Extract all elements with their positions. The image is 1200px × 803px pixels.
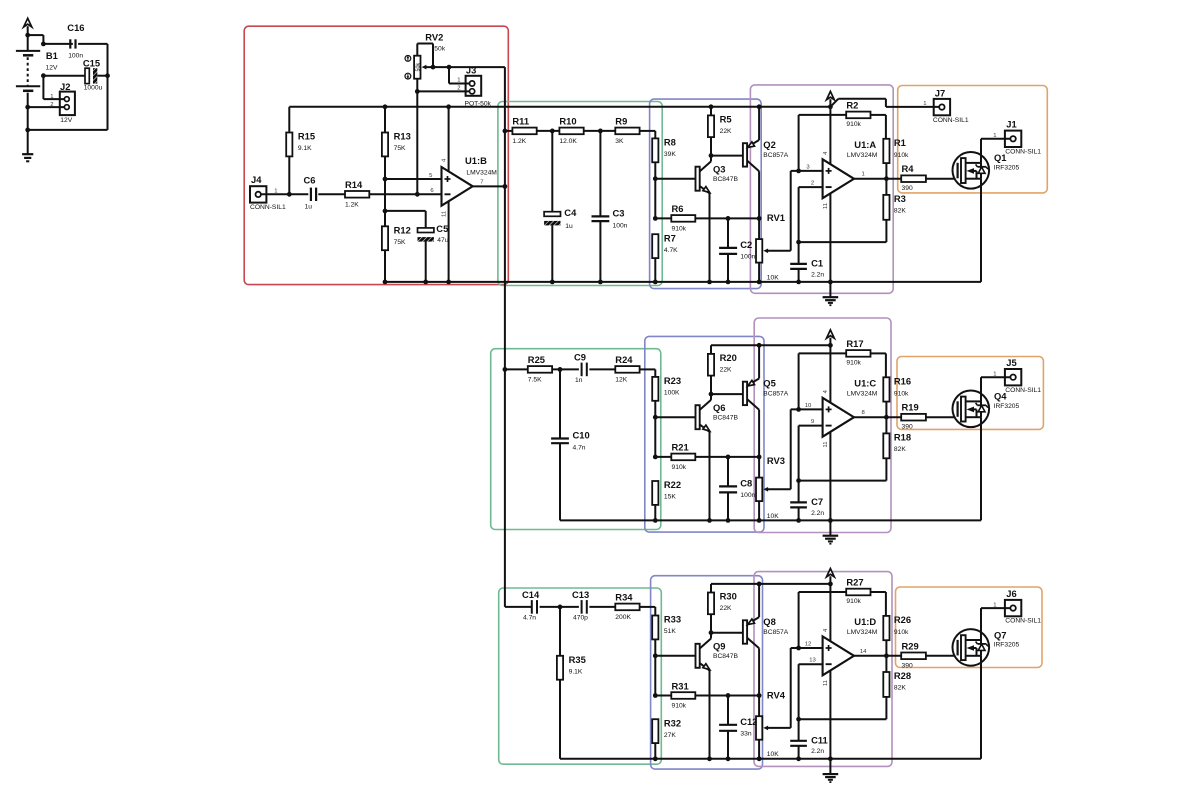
wire: [43, 75, 85, 77]
resistor R23: [652, 375, 681, 401]
node R7/rail: [653, 518, 658, 523]
svg-text:1u: 1u: [565, 223, 573, 230]
wire source to rail: [980, 179, 982, 282]
svg-text:BC847B: BC847B: [713, 653, 738, 660]
ground: [823, 282, 839, 305]
wire + input: [791, 170, 823, 172]
svg-text:7: 7: [480, 180, 483, 186]
wire NPN base: [655, 178, 696, 180]
transistor Q6: [696, 394, 739, 432]
resistor R15: [286, 107, 315, 195]
svg-text:R35: R35: [569, 654, 586, 665]
capacitor C10: [551, 430, 590, 452]
wire: [42, 76, 44, 99]
node main/R11: [503, 129, 508, 134]
svg-text:Q5: Q5: [763, 377, 776, 388]
svg-text:1u: 1u: [305, 204, 313, 211]
svg-text:390: 390: [902, 185, 913, 192]
svg-text:R10: R10: [559, 116, 576, 127]
power arrow battery: [24, 18, 32, 35]
red annotation box (input stage): [244, 26, 508, 284]
node Cf/rail: [796, 756, 801, 761]
orange annotation box row3: [896, 587, 1043, 668]
svg-text:LMV324M: LMV324M: [847, 629, 878, 636]
wire: [589, 368, 615, 370]
wire NPN emitter to rail: [709, 193, 711, 282]
transistor Q8: [743, 584, 789, 696]
svg-text:11: 11: [823, 441, 829, 447]
green annotation box row2: [491, 349, 661, 530]
svg-text:C7: C7: [811, 496, 823, 507]
wire: [654, 639, 656, 695]
label J5: [993, 357, 1041, 394]
wire R24 to R23: [640, 369, 656, 377]
wire: [97, 75, 107, 77]
wire R34 to R33: [640, 607, 656, 616]
wire ground rail row2: [655, 519, 981, 521]
svg-text:2: 2: [50, 102, 53, 108]
wire: [885, 402, 887, 418]
wire pin4 supply: [829, 107, 831, 164]
resistor R12: [382, 225, 411, 282]
node emitter/rail: [707, 756, 712, 761]
purple annotation box row3: [754, 572, 892, 767]
wire: [505, 606, 531, 608]
node + input: [796, 407, 801, 412]
wire - input: [799, 426, 823, 481]
resistor R19: [901, 402, 926, 431]
svg-text:11: 11: [441, 211, 447, 217]
svg-text:CONN-SIL1: CONN-SIL1: [250, 204, 286, 211]
node: [41, 73, 46, 78]
node collector/base net: [709, 153, 714, 158]
svg-text:1: 1: [923, 101, 926, 107]
wire gate: [926, 416, 957, 418]
op-amp U1:B: [429, 155, 497, 217]
resistor R32: [652, 717, 681, 743]
svg-text:51K: 51K: [664, 628, 676, 635]
svg-text:75K: 75K: [394, 239, 406, 246]
wire C5 branch: [385, 210, 426, 212]
wire main V+ rail: [289, 106, 830, 108]
wire: [107, 76, 109, 130]
wire C10 up: [559, 369, 561, 438]
wire drain: [981, 608, 1010, 640]
node R7/rail: [653, 756, 658, 761]
wire C10 down to rail: [560, 443, 655, 520]
resistor R29: [901, 640, 926, 669]
potentiometer RV2: [414, 32, 446, 79]
resistor R7: [652, 232, 678, 258]
wire NPN base: [655, 416, 696, 418]
wire U1:B output: [473, 185, 505, 187]
node RV2/pin6: [415, 192, 420, 197]
svg-text:82K: 82K: [894, 446, 906, 453]
power +12V arrow: [827, 569, 835, 584]
svg-text:12.0K: 12.0K: [559, 138, 577, 145]
resistor R21: [655, 442, 695, 471]
svg-text:910k: 910k: [846, 121, 861, 128]
blue annotation box row3: [651, 576, 763, 769]
svg-text:Q7: Q7: [994, 629, 1007, 640]
op-amp U1:A: [806, 139, 877, 209]
svg-text:R16: R16: [894, 375, 911, 386]
svg-text:100n: 100n: [740, 254, 755, 261]
svg-text:Q6: Q6: [713, 402, 726, 413]
blue annotation box row2: [645, 336, 764, 532]
wire PNP base: [711, 155, 744, 157]
svg-text:U1:C: U1:C: [854, 377, 876, 388]
node Cb/rail: [726, 756, 731, 761]
svg-text:2.2n: 2.2n: [811, 510, 824, 517]
wire J2 pin2: [28, 106, 65, 108]
node RV2 bottom: [415, 89, 420, 94]
node J4/R15/C6: [287, 192, 292, 197]
node R7/rail: [653, 280, 658, 285]
svg-text:C5: C5: [436, 223, 448, 234]
label J7: [923, 87, 969, 123]
svg-text:9: 9: [811, 419, 814, 425]
resistor R31: [655, 680, 695, 709]
svg-text:BC847B: BC847B: [713, 176, 738, 183]
node Cb/rail: [726, 280, 731, 285]
wire: [885, 640, 887, 656]
svg-text:2: 2: [457, 85, 460, 91]
wire - input: [799, 187, 823, 242]
wire: [78, 43, 107, 45]
wire feedback: [799, 718, 887, 720]
blue annotation box row1: [650, 99, 762, 289]
svg-text:910k: 910k: [672, 703, 687, 710]
wire: [589, 606, 615, 608]
svg-text:C8: C8: [740, 478, 752, 489]
node R35 top: [558, 605, 563, 610]
connector J2: [50, 81, 75, 124]
node R13/R12/pin5: [383, 177, 388, 182]
wire drain: [981, 139, 1010, 163]
svg-text:CONN-SIL1: CONN-SIL1: [1005, 618, 1041, 625]
node RV2 wiper/top: [431, 65, 436, 70]
svg-text:4.7K: 4.7K: [664, 247, 678, 254]
resistor R33: [652, 614, 681, 640]
resistor R16: [883, 375, 911, 401]
node C5/rail: [423, 280, 428, 285]
svg-text:R1: R1: [894, 137, 906, 148]
svg-text:R21: R21: [672, 442, 689, 453]
svg-text:C12: C12: [740, 716, 757, 727]
svg-text:R7: R7: [664, 232, 676, 243]
node RV top: [757, 455, 762, 460]
svg-text:R31: R31: [672, 680, 689, 691]
resistor R34: [615, 592, 639, 621]
wire: [537, 130, 560, 132]
node R5 top: [709, 104, 714, 109]
wire pin11: [829, 193, 831, 282]
svg-text:Q3: Q3: [713, 163, 726, 174]
wire source to rail: [980, 656, 982, 759]
svg-text:R3: R3: [894, 193, 906, 204]
resistor R35: [557, 654, 586, 680]
wire: [318, 193, 345, 195]
svg-text:IRF3205: IRF3205: [994, 641, 1020, 648]
node feedback: [796, 478, 801, 483]
wire ground rail row1: [385, 281, 981, 283]
node Cf/rail: [796, 280, 801, 285]
resistor R3: [883, 193, 906, 220]
resistor R10: [559, 116, 583, 145]
svg-text:R33: R33: [664, 614, 681, 625]
node RV/rail: [757, 518, 762, 523]
svg-text:22K: 22K: [720, 128, 732, 135]
svg-text:U1:D: U1:D: [854, 616, 876, 627]
svg-text:9.1K: 9.1K: [298, 145, 312, 152]
green annotation box row1: [498, 102, 662, 286]
svg-text:C4: C4: [564, 207, 577, 218]
capacitor C16: [67, 22, 84, 60]
capacitor C1: [790, 242, 824, 282]
svg-text:27K: 27K: [664, 732, 676, 739]
svg-text:15K: 15K: [664, 494, 676, 501]
svg-text:LMV324M: LMV324M: [847, 152, 878, 159]
svg-text:U1:A: U1:A: [854, 139, 876, 150]
wire J2 pin1: [43, 98, 64, 100]
wire output: [854, 178, 901, 180]
potentiometer RV4: [756, 690, 791, 759]
svg-text:4.7n: 4.7n: [523, 614, 536, 621]
svg-text:910k: 910k: [894, 629, 909, 636]
svg-text:22K: 22K: [720, 605, 732, 612]
node C16 left: [41, 42, 46, 47]
wire J3 pin1: [449, 67, 470, 83]
capacitor C9: [574, 351, 587, 384]
resistor R1: [883, 137, 909, 163]
transistor Q2: [743, 107, 789, 219]
svg-text:R12: R12: [394, 225, 411, 236]
node collector/base net: [709, 630, 714, 635]
svg-text:910k: 910k: [672, 464, 687, 471]
node feedback: [796, 240, 801, 245]
node U1:B out / main vertical: [503, 184, 508, 189]
resistor R26: [883, 614, 911, 640]
svg-text:J6: J6: [1006, 588, 1016, 599]
wire: [871, 592, 886, 616]
svg-text:12K: 12K: [615, 377, 627, 384]
resistor R18: [883, 431, 911, 458]
wire: [425, 241, 427, 282]
node battery bottom: [25, 127, 30, 132]
capacitor C4: [544, 207, 577, 230]
svg-text:22K: 22K: [720, 366, 732, 373]
wire: [695, 217, 759, 219]
ground battery: [22, 130, 33, 161]
node C4/rail: [550, 280, 555, 285]
wire R13-R12: [384, 179, 386, 226]
svg-text:C1: C1: [811, 258, 823, 269]
wire supply detour to J7: [830, 99, 939, 107]
wire pin11: [829, 432, 831, 521]
wire C4 down: [551, 225, 553, 282]
capacitor C3: [592, 208, 628, 230]
node base junction: [653, 415, 658, 420]
svg-text:C13: C13: [572, 589, 589, 600]
svg-text:C11: C11: [811, 734, 828, 745]
svg-text:910k: 910k: [846, 359, 861, 366]
wire top supply: [711, 583, 830, 585]
svg-text:12V: 12V: [46, 65, 58, 72]
wire: [43, 43, 73, 45]
svg-text:39K: 39K: [664, 151, 676, 158]
svg-text:BC857A: BC857A: [763, 629, 788, 636]
node J3 pin1 branch: [447, 65, 452, 70]
potentiometer RV1: [756, 212, 791, 282]
wire J3 pin2: [417, 90, 469, 92]
svg-text:R11: R11: [512, 116, 529, 127]
wire source to rail: [980, 417, 982, 520]
svg-text:R32: R32: [664, 717, 681, 728]
RV2 terminal mark bottom: [405, 73, 411, 79]
node pin11/rail: [828, 756, 833, 761]
svg-text:1n: 1n: [575, 377, 583, 384]
svg-text:12V: 12V: [60, 117, 72, 124]
ground: [823, 520, 839, 543]
wire RV2-pin6 feedback: [416, 91, 418, 194]
wire pin4 supply: [829, 345, 831, 402]
svg-text:R5: R5: [720, 113, 732, 124]
svg-text:RV3: RV3: [767, 455, 785, 466]
capacitor C11: [790, 719, 828, 759]
svg-text:R28: R28: [894, 670, 911, 681]
node battery mid: [25, 105, 30, 110]
svg-text:B1: B1: [46, 50, 58, 61]
node base junction: [653, 653, 658, 658]
capacitor C8: [719, 457, 755, 521]
svg-text:R25: R25: [528, 354, 545, 365]
svg-text:C9: C9: [574, 351, 586, 362]
wire: [885, 163, 887, 179]
svg-text:75K: 75K: [394, 145, 406, 152]
node C4 top: [550, 129, 555, 134]
svg-text:LMV324M: LMV324M: [847, 391, 878, 398]
svg-text:C6: C6: [304, 174, 316, 185]
svg-text:IRF3205: IRF3205: [994, 403, 1020, 410]
ground: [823, 759, 839, 782]
wire NPN emitter to rail: [709, 432, 711, 521]
wire NPN emitter to rail: [709, 670, 711, 758]
svg-text:1: 1: [50, 94, 53, 100]
svg-text:R15: R15: [298, 131, 315, 142]
node pin11/rail: [828, 518, 833, 523]
purple annotation box row2: [754, 318, 891, 533]
connector J6: [1005, 600, 1021, 616]
node RV top: [757, 216, 762, 221]
svg-text:2.2n: 2.2n: [811, 748, 824, 755]
svg-text:C10: C10: [573, 430, 590, 441]
svg-text:33n: 33n: [740, 730, 751, 737]
svg-text:100n: 100n: [740, 492, 755, 499]
wire bottom loop: [28, 129, 108, 131]
node C bootstrap top: [726, 693, 731, 698]
wire: [885, 179, 887, 242]
node collector/base net: [709, 392, 714, 397]
svg-text:R26: R26: [894, 614, 911, 625]
svg-text:R23: R23: [664, 375, 681, 386]
wire: [654, 505, 656, 521]
svg-text:R2: R2: [846, 99, 858, 110]
wire drain: [981, 377, 1010, 401]
node output: [884, 653, 889, 658]
svg-text:C2: C2: [740, 239, 752, 250]
node feedback: [796, 717, 801, 722]
wire: [871, 115, 886, 139]
svg-text:J7: J7: [935, 87, 945, 98]
node power junction: [828, 104, 833, 109]
svg-text:470p: 470p: [573, 614, 588, 621]
wire - input: [799, 664, 823, 719]
wire wiper riser: [790, 171, 792, 251]
resistor R30: [708, 584, 737, 633]
op-amp U1:D: [805, 616, 878, 686]
connector J4: [250, 186, 266, 202]
node Cf/rail: [796, 518, 801, 523]
wire: [27, 107, 29, 130]
svg-text:1: 1: [862, 172, 865, 178]
svg-text:R8: R8: [664, 137, 676, 148]
wire main vertical: [504, 67, 506, 607]
svg-text:U1:B: U1:B: [465, 155, 487, 166]
wire: [505, 130, 513, 132]
svg-text:50k: 50k: [434, 46, 445, 53]
wire gate: [926, 178, 957, 180]
svg-text:7.5K: 7.5K: [528, 377, 542, 384]
node Cb/rail: [726, 518, 731, 523]
svg-text:82K: 82K: [894, 207, 906, 214]
svg-text:82K: 82K: [894, 684, 906, 691]
svg-text:LMV324M: LMV324M: [466, 169, 497, 176]
svg-text:10K: 10K: [767, 274, 779, 281]
svg-text:1: 1: [993, 133, 996, 139]
wire: [584, 130, 616, 132]
capacitor C14: [522, 589, 540, 622]
resistor R4: [901, 163, 926, 192]
svg-text:1.2K: 1.2K: [512, 138, 526, 145]
resistor R20: [708, 345, 737, 394]
svg-text:BC857A: BC857A: [763, 152, 788, 159]
svg-text:910k: 910k: [846, 598, 861, 605]
svg-text:CONN-SIL1: CONN-SIL1: [933, 117, 969, 124]
svg-text:C14: C14: [522, 589, 540, 600]
orange annotation box row1: [898, 86, 1048, 193]
node power junction: [828, 343, 833, 348]
wire NPN base: [655, 655, 696, 657]
wire C3 down: [599, 221, 601, 282]
svg-text:200K: 200K: [615, 614, 631, 621]
label J1: [993, 119, 1041, 156]
battery B1: [16, 35, 58, 107]
node Q emitter/top: [757, 343, 762, 348]
node C3 top: [598, 129, 603, 134]
svg-text:Q2: Q2: [763, 139, 776, 150]
wire + input: [791, 647, 823, 649]
wire + input: [791, 408, 823, 410]
svg-text:2: 2: [811, 181, 814, 187]
capacitor C5: [418, 223, 449, 244]
resistor R24: [615, 354, 639, 383]
svg-text:R20: R20: [720, 352, 737, 363]
svg-text:R14: R14: [345, 179, 363, 190]
power +12V arrow: [827, 91, 835, 106]
svg-text:11: 11: [823, 203, 829, 209]
svg-text:C16: C16: [67, 22, 84, 33]
